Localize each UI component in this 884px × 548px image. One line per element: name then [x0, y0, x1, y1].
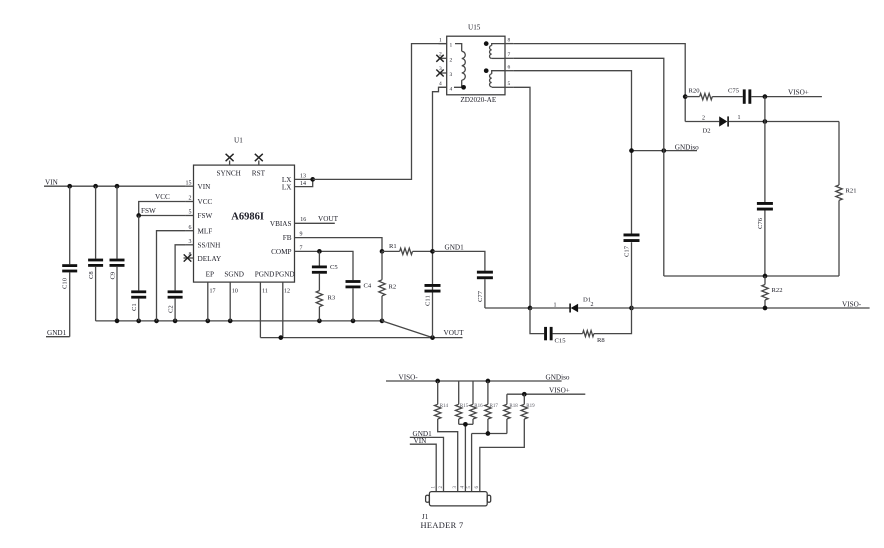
pin 7 COMP wire — [295, 245, 354, 280]
svg-text:5: 5 — [508, 81, 511, 87]
svg-text:GNDiso: GNDiso — [675, 143, 699, 151]
junction pin12-VOUT — [278, 335, 283, 340]
node GND1 header — [410, 430, 444, 492]
svg-text:A6986I: A6986I — [231, 212, 264, 223]
svg-text:C9: C9 — [110, 271, 117, 279]
svg-text:GND1: GND1 — [47, 329, 67, 337]
transformer pin 3 stub no-connect X — [436, 66, 446, 76]
svg-text:R19: R19 — [526, 404, 535, 409]
transformer pin 5 stub — [505, 81, 513, 87]
resistor R17 — [485, 381, 499, 434]
svg-text:8: 8 — [508, 38, 511, 44]
junction pin7-GNDiso — [661, 148, 666, 153]
junction R17 bottom — [486, 431, 491, 436]
svg-text:7: 7 — [300, 245, 303, 251]
junction D1-R8-C17 — [629, 306, 634, 311]
transformer pin 6 stub — [505, 65, 513, 71]
svg-text:C15: C15 — [555, 338, 567, 345]
transformer primary winding — [454, 44, 465, 88]
node VIN header — [410, 437, 436, 492]
junction pin8-R20 — [683, 94, 688, 99]
svg-text:9: 9 — [300, 232, 303, 238]
diode D1 — [530, 297, 632, 313]
svg-text:R18: R18 — [509, 404, 518, 409]
svg-text:C76: C76 — [757, 217, 764, 229]
svg-text:J1: J1 — [422, 513, 429, 521]
svg-text:MLF: MLF — [198, 227, 213, 235]
resistor R16 — [470, 381, 483, 424]
junction R17 top — [486, 379, 491, 384]
svg-text:C5: C5 — [330, 264, 338, 271]
wire SS/INH — [175, 245, 186, 291]
capacitor C77 — [477, 271, 493, 308]
svg-text:2: 2 — [189, 196, 192, 202]
wire transformer pin 4 down — [433, 87, 447, 337]
svg-text:VISO-: VISO- — [842, 300, 862, 308]
polarity dot secondary bottom — [484, 68, 489, 73]
junction FSW-C1 — [136, 213, 141, 218]
junction COMP-C5 — [317, 249, 322, 254]
svg-text:R8: R8 — [597, 337, 605, 344]
svg-text:VBIAS: VBIAS — [270, 220, 292, 228]
capacitor C2 — [167, 290, 182, 321]
node GND1 mid — [445, 243, 465, 251]
svg-text:U1: U1 — [234, 137, 243, 145]
svg-text:DELAY: DELAY — [198, 255, 223, 263]
svg-text:R21: R21 — [846, 188, 857, 195]
junction pin5-C77-C15 — [528, 306, 533, 311]
svg-text:1: 1 — [439, 38, 442, 44]
wire isolated bottom line — [664, 275, 839, 277]
svg-text:C75: C75 — [728, 88, 740, 95]
transformer pin 8 stub — [505, 38, 513, 44]
transformer pin 4 stub — [439, 81, 447, 87]
node GNDiso bottom — [546, 373, 570, 381]
junction rail-C9 — [115, 319, 120, 324]
pin 17 EP stub — [208, 282, 216, 321]
resistor R15 — [456, 381, 469, 424]
svg-text:R20: R20 — [689, 88, 701, 95]
svg-text:7: 7 — [508, 52, 511, 58]
pin 2 VCC stub — [186, 196, 194, 202]
pin 16 VBIAS stub / node VOUT — [295, 215, 339, 223]
svg-text:R14: R14 — [440, 404, 449, 409]
svg-text:5: 5 — [189, 210, 192, 216]
capacitor C76 — [757, 202, 773, 229]
resistor R14 — [435, 381, 458, 492]
wire C77 to pin5 node — [485, 307, 530, 309]
junction VIN-C8 — [93, 184, 98, 189]
wire transformer pin 5 down — [513, 87, 530, 308]
svg-text:4: 4 — [450, 86, 453, 92]
svg-text:LX: LX — [282, 183, 292, 191]
wire R17 R18 bus — [472, 434, 507, 492]
junction rail-R3 — [317, 319, 322, 324]
junction LX — [310, 177, 315, 182]
wire FSW — [139, 207, 186, 216]
wire ground rail — [96, 320, 382, 322]
junction rail-C4 — [351, 319, 356, 324]
pin 3 SS/INH stub — [186, 239, 194, 245]
svg-text:R3: R3 — [328, 295, 336, 302]
pin 13 LX stub — [295, 173, 313, 179]
wire VOUT line — [260, 329, 464, 337]
svg-text:VOUT: VOUT — [318, 215, 339, 223]
svg-text:VISO+: VISO+ — [788, 89, 809, 97]
junction pin4-GND1 — [430, 249, 435, 254]
junction rail-EP — [205, 319, 210, 324]
svg-text:6: 6 — [508, 65, 511, 71]
pin 15 VIN stub — [186, 180, 194, 186]
node VISO+ bottom — [507, 386, 585, 394]
junction rail-MLF — [154, 319, 159, 324]
polarity dot primary pin4 — [461, 85, 466, 90]
pin 14 LX stub — [295, 179, 313, 187]
resistor R19 — [480, 394, 535, 491]
svg-text:R17: R17 — [490, 404, 499, 409]
svg-text:R1: R1 — [389, 243, 397, 250]
junction D2-C76 — [763, 119, 768, 124]
resistor R8 — [583, 331, 606, 344]
node VISO+ — [751, 89, 822, 97]
svg-text:1: 1 — [738, 115, 741, 121]
svg-text:SS/INH: SS/INH — [198, 242, 221, 250]
svg-text:13: 13 — [300, 173, 306, 179]
wire GND1 to C77 — [433, 251, 485, 270]
svg-text:VOUT: VOUT — [444, 329, 465, 337]
svg-text:VISO-: VISO- — [399, 374, 419, 382]
svg-text:3: 3 — [450, 72, 453, 78]
no-connect X RST — [255, 154, 263, 165]
svg-text:R2: R2 — [389, 284, 397, 291]
svg-text:C1: C1 — [131, 303, 138, 311]
node VISO- bottom — [399, 374, 419, 382]
junction rail-C2 — [173, 319, 178, 324]
svg-text:VIN: VIN — [45, 179, 59, 187]
pin 11 PGND stub — [260, 282, 267, 338]
resistor R22 — [762, 276, 783, 308]
junction bracket center — [463, 422, 468, 427]
svg-text:C11: C11 — [425, 295, 432, 306]
svg-text:12: 12 — [284, 289, 290, 295]
pin 9 FB wire — [295, 232, 383, 252]
junction R22-VISO- — [763, 306, 768, 311]
svg-text:3: 3 — [189, 239, 192, 245]
transformer secondary winding bottom — [490, 71, 505, 88]
node GND1 — [46, 329, 70, 337]
junction rail-SGND — [228, 319, 233, 324]
junction R19 top — [522, 392, 527, 397]
svg-text:VCC: VCC — [198, 198, 213, 206]
wire transformer pin 8 down — [513, 44, 685, 122]
svg-text:PGND: PGND — [275, 271, 295, 279]
svg-text:FSW: FSW — [141, 207, 156, 215]
junction pin6-GNDiso — [629, 148, 634, 153]
pin 12 PGND stub — [283, 282, 290, 338]
wire VIN rail — [44, 185, 186, 187]
wire VISO- main — [632, 300, 870, 308]
capacitor C11 — [425, 284, 441, 306]
wire C15 R8 branch — [530, 308, 632, 334]
svg-text:C10: C10 — [62, 277, 69, 289]
svg-text:SGND: SGND — [224, 271, 244, 279]
connector J1 HEADER 7 — [421, 492, 491, 530]
capacitor C75 — [728, 88, 751, 104]
capacitor C1 — [131, 216, 146, 321]
junction FB-R1-R2 — [380, 249, 385, 254]
svg-text:VIN: VIN — [198, 183, 212, 191]
capacitor C10 — [62, 186, 78, 337]
svg-text:D1: D1 — [583, 297, 591, 304]
wire diagonal rail to VOUT node — [382, 321, 433, 338]
svg-text:6: 6 — [189, 225, 192, 231]
wire VCC — [139, 193, 186, 216]
wire R15 R16 bracket — [459, 424, 473, 491]
capacitor C5 — [312, 251, 338, 290]
polarity dot secondary top — [484, 41, 489, 46]
transformer secondary winding top — [490, 44, 505, 59]
wire MLF — [157, 231, 186, 321]
capacitor C8 — [88, 186, 103, 321]
svg-text:ZD2020-AE: ZD2020-AE — [460, 96, 497, 104]
svg-text:15: 15 — [186, 180, 192, 186]
transformer pin 7 stub — [505, 52, 513, 58]
header pin number marks — [432, 486, 481, 489]
svg-text:U15: U15 — [468, 24, 481, 32]
svg-text:R15: R15 — [460, 404, 469, 409]
svg-text:FSW: FSW — [198, 212, 213, 220]
svg-text:R22: R22 — [772, 287, 783, 294]
transformer U15 ZD2020-AE — [447, 24, 505, 104]
resistor R21 — [836, 122, 857, 277]
svg-text:1: 1 — [450, 43, 453, 49]
svg-text:4: 4 — [439, 81, 442, 87]
svg-text:1: 1 — [554, 302, 557, 308]
junction rail-R2 — [380, 319, 385, 324]
svg-text:16: 16 — [300, 217, 306, 223]
wire transformer pin 6 down — [513, 71, 631, 308]
svg-text:14: 14 — [300, 181, 306, 187]
wire transformer pin 7 down — [513, 58, 664, 276]
junction C75-VISO+ — [763, 94, 768, 99]
capacitor C17 — [624, 234, 640, 258]
junction R22 top — [763, 274, 768, 279]
svg-text:C2: C2 — [167, 305, 174, 313]
svg-text:PGND: PGND — [255, 271, 275, 279]
svg-text:C8: C8 — [88, 271, 95, 279]
svg-text:GND1: GND1 — [445, 243, 465, 251]
resistor R20 — [685, 88, 743, 100]
svg-text:2: 2 — [702, 116, 705, 122]
resistor R1 — [382, 243, 433, 254]
junction rail-C1 — [136, 319, 141, 324]
pin 8 DELAY stub no-connect X — [184, 252, 194, 262]
node GNDiso — [632, 143, 700, 151]
pin 5 FSW stub — [186, 210, 194, 216]
capacitor C9 — [110, 186, 125, 321]
svg-text:GNDiso: GNDiso — [546, 373, 570, 381]
no-connect X SYNCH — [226, 154, 234, 165]
wire VISO- GNDiso bottom line — [386, 380, 562, 382]
pin 10 SGND stub — [230, 282, 238, 321]
svg-text:C77: C77 — [477, 290, 484, 302]
svg-text:D2: D2 — [703, 127, 711, 134]
svg-text:R16: R16 — [474, 404, 483, 409]
svg-text:SYNCH: SYNCH — [217, 169, 241, 177]
svg-text:VCC: VCC — [155, 193, 170, 201]
junction C11-VOUT — [430, 335, 435, 340]
transformer pin 2 stub no-connect X — [436, 52, 446, 62]
svg-text:2: 2 — [450, 57, 453, 63]
svg-text:EP: EP — [206, 271, 214, 279]
resistor R3 — [316, 291, 336, 321]
svg-text:C4: C4 — [364, 283, 372, 290]
svg-text:11: 11 — [262, 289, 268, 295]
junction R14 top — [435, 379, 440, 384]
wire LX to transformer pin 1 — [313, 44, 447, 180]
svg-text:FB: FB — [283, 234, 292, 242]
svg-text:10: 10 — [232, 289, 238, 295]
resistor R2 — [379, 251, 396, 321]
wire C76 column — [764, 97, 766, 276]
junction VIN-C10 — [67, 184, 72, 189]
svg-text:RST: RST — [252, 169, 266, 177]
svg-text:HEADER 7: HEADER 7 — [421, 521, 464, 530]
node VIN — [45, 179, 59, 187]
svg-text:COMP: COMP — [271, 248, 291, 256]
pin 6 MLF stub — [186, 225, 194, 231]
capacitor C4 — [346, 280, 372, 321]
junction VIN-C9 — [115, 184, 120, 189]
diode D2 — [685, 115, 839, 134]
capacitor C15 — [544, 327, 566, 345]
IC U1 A6986I — [194, 137, 295, 283]
svg-text:VISO+: VISO+ — [549, 386, 570, 394]
transformer pin 1 stub — [439, 38, 447, 44]
resistor R18 — [504, 394, 519, 433]
svg-text:17: 17 — [210, 289, 216, 295]
svg-text:C17: C17 — [624, 245, 631, 257]
